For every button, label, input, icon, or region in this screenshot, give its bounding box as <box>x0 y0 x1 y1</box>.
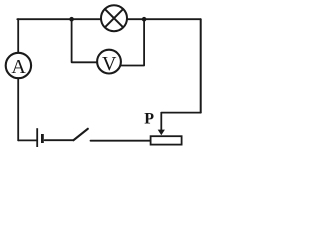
lamp L1 <box>101 5 127 31</box>
wire elbow horizontal to wiper <box>161 112 200 114</box>
node junction right <box>142 17 147 22</box>
battery B1 <box>37 128 42 147</box>
wire left vertical lower <box>17 79 19 140</box>
wire battery-to-switch <box>45 139 74 141</box>
wire top-left horizontal <box>17 18 100 20</box>
svg-text:A: A <box>11 56 26 78</box>
rheostat R1 <box>151 136 182 144</box>
voltmeter V <box>97 50 121 75</box>
svg-text:P: P <box>144 110 154 127</box>
ammeter A <box>6 53 31 78</box>
wire voltmeter right branch <box>121 19 144 65</box>
node junction left <box>69 17 74 22</box>
wire switch-to-rheostat <box>91 140 150 142</box>
wire voltmeter left branch <box>72 19 97 62</box>
wire right vertical <box>200 19 202 112</box>
wire bottom-left horizontal <box>18 139 36 141</box>
wire left vertical upper <box>17 19 19 52</box>
switch S1 <box>74 129 88 140</box>
svg-text:V: V <box>102 53 117 75</box>
rheostat wiper arrow <box>158 113 165 136</box>
wire top-right horizontal <box>128 18 201 20</box>
